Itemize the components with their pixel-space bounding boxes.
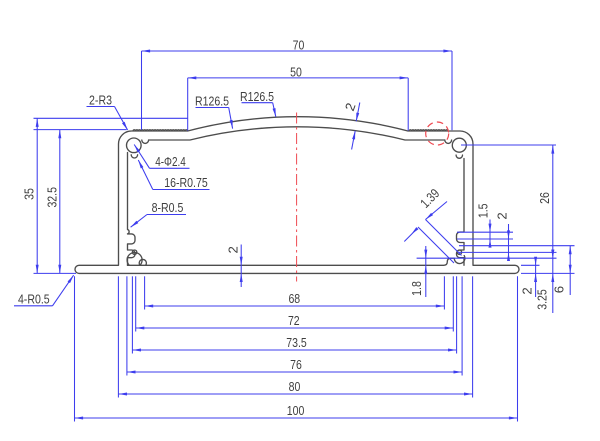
- svg-text:76: 76: [290, 357, 302, 372]
- svg-text:2: 2: [519, 287, 534, 294]
- svg-text:3.25: 3.25: [535, 289, 550, 310]
- svg-text:35: 35: [22, 188, 37, 200]
- svg-text:1.5: 1.5: [476, 203, 491, 218]
- svg-text:32.5: 32.5: [44, 187, 59, 208]
- svg-text:80: 80: [289, 379, 301, 394]
- svg-text:72: 72: [288, 313, 300, 328]
- svg-text:1.8: 1.8: [409, 281, 424, 296]
- svg-text:16-R0.75: 16-R0.75: [164, 175, 207, 190]
- svg-text:68: 68: [288, 291, 300, 306]
- svg-text:6: 6: [552, 286, 567, 293]
- svg-text:2-R3: 2-R3: [89, 93, 112, 108]
- svg-text:2: 2: [225, 246, 240, 253]
- svg-text:R126.5: R126.5: [195, 94, 229, 109]
- svg-text:2: 2: [494, 212, 509, 219]
- svg-text:100: 100: [287, 403, 305, 418]
- svg-text:26: 26: [537, 192, 552, 204]
- svg-text:73.5: 73.5: [286, 335, 307, 350]
- svg-text:8-R0.5: 8-R0.5: [152, 200, 184, 215]
- svg-text:R126.5: R126.5: [240, 89, 274, 104]
- svg-text:4-Φ2.4: 4-Φ2.4: [155, 154, 186, 169]
- svg-text:50: 50: [290, 64, 302, 79]
- svg-text:4-R0.5: 4-R0.5: [18, 292, 50, 307]
- svg-text:70: 70: [293, 37, 305, 52]
